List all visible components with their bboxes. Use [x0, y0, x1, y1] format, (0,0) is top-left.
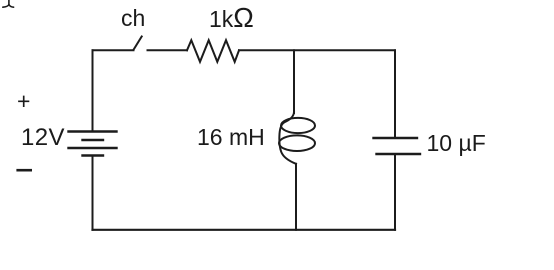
battery short plate 1 — [83, 139, 104, 141]
label 16 mH — [197, 126, 265, 149]
capacitor bottom plate — [377, 153, 421, 155]
capacitor C 10uF top plate — [374, 137, 418, 139]
wire switch to resistor — [148, 49, 188, 51]
switch ch blade — [134, 37, 142, 50]
left vertical wire bottom (battery -) — [92, 156, 94, 230]
label 1k ohm — [209, 6, 254, 31]
label 10 uF — [427, 132, 486, 155]
node junction inductor top — [293, 50, 295, 113]
wire inductor bottom — [295, 164, 297, 230]
inductor coil loop 2 — [279, 135, 315, 151]
label + — [17, 90, 30, 113]
corner artifact glyph — [3, 0, 14, 7]
wire resistor to top-right corner — [239, 49, 395, 51]
right vertical wire top — [394, 50, 396, 138]
resistor R 1k ohm zigzag — [187, 40, 239, 62]
battery B1 12V long plate 1 — [69, 130, 117, 132]
battery long plate 2 — [69, 147, 117, 149]
inductor L coil 16 mH loop 1 — [281, 118, 315, 133]
bottom wire — [93, 229, 396, 231]
label 12V — [21, 126, 65, 149]
wire top-left from corner to switch — [93, 49, 134, 51]
label minus bar — [18, 169, 31, 172]
battery short plate 2 — [83, 154, 104, 156]
left vertical wire top (battery +) — [92, 50, 94, 131]
right vertical wire bottom — [394, 154, 396, 230]
inductor coil spine — [279, 112, 296, 164]
label ch — [121, 7, 145, 30]
